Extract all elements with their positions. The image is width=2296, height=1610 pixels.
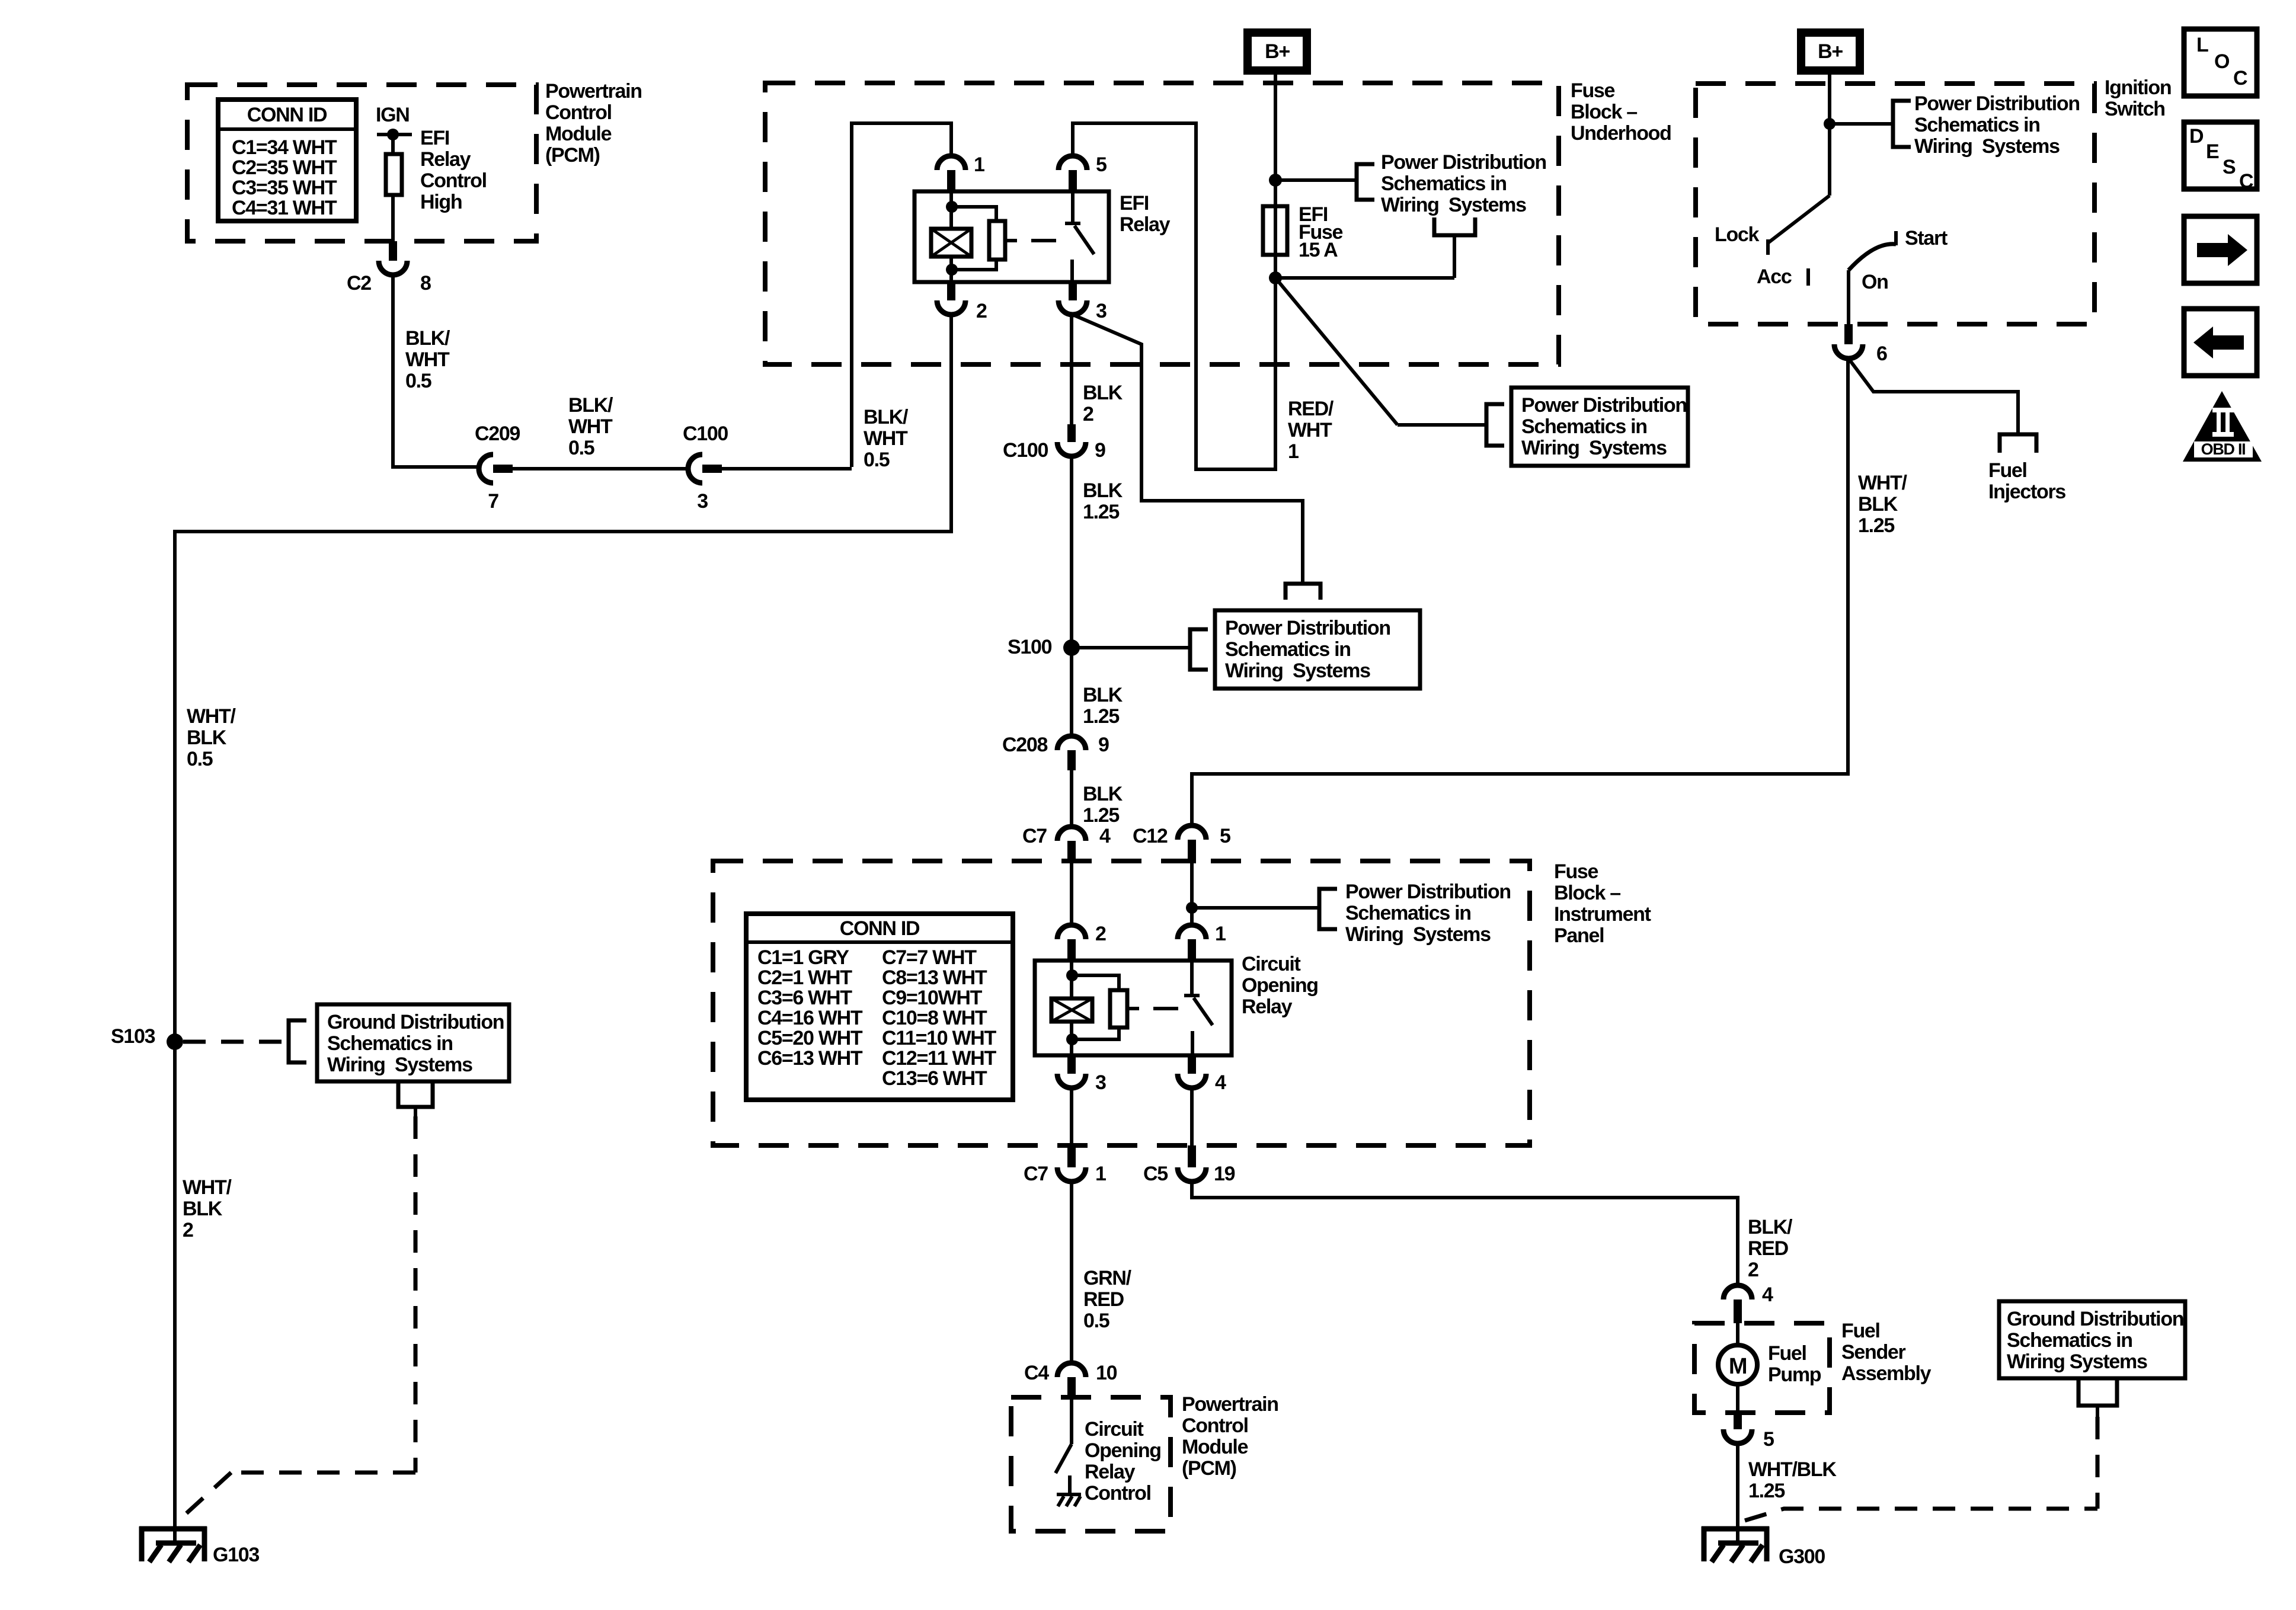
- EFI relay armature branch: [952, 207, 996, 221]
- svg-text:Fuel: Fuel: [1768, 1342, 1806, 1365]
- connector C7 pin 1 (below fuse block IP): [1057, 1167, 1086, 1182]
- wire relay pin 3 down to C7-1: [1070, 1088, 1073, 1145]
- wire EFI relay control: pin 2 down, left to PCM ground run: [175, 315, 951, 1042]
- svg-text:Sender: Sender: [1841, 1341, 1906, 1363]
- node junction on C12 wire (tap to power distribution label): [1186, 902, 1198, 914]
- svg-text:(PCM): (PCM): [1182, 1457, 1236, 1480]
- splice S100: [1063, 639, 1080, 656]
- B+ terminal (ignition switch): [1797, 28, 1864, 75]
- COR switch lower terminal to pin 4: [1191, 1031, 1194, 1055]
- connector fuel sender pin 4: [1723, 1285, 1752, 1299]
- connector C2 pin 8 (PCM output): [379, 261, 407, 275]
- svg-text:WHT/: WHT/: [1858, 472, 1908, 494]
- svg-text:Power Distribution: Power Distribution: [1381, 151, 1546, 174]
- wire B+ feed (ignition switch): [1828, 71, 1831, 196]
- wire C2-8 to C209 (BLK/WHT 0.5 from PCM): [393, 275, 478, 467]
- relay K1 EFI Relay box: [914, 191, 1109, 282]
- bracket to ground distribution box (left): [289, 1020, 306, 1062]
- svg-text:Relay: Relay: [420, 148, 471, 171]
- svg-text:Control: Control: [1085, 1482, 1151, 1505]
- svg-text:9: 9: [1098, 734, 1109, 756]
- bracket to power distribution note (ignition): [1893, 101, 1911, 147]
- wire EFI relay pin 5 loop (up right and down to fuse leg): [1073, 123, 1275, 469]
- svg-text:C13=6 WHT: C13=6 WHT: [882, 1067, 987, 1090]
- svg-text:BLK: BLK: [183, 1198, 223, 1220]
- EFI relay switch lower terminal to pin 3: [1070, 260, 1074, 282]
- node coil top (COR): [1066, 969, 1078, 981]
- svg-text:8: 8: [420, 272, 431, 295]
- svg-text:Wiring Systems: Wiring Systems: [1345, 923, 1491, 946]
- wire fuse output right branch to power distribution bracket: [1274, 255, 1277, 278]
- svg-text:C4=31 WHT: C4=31 WHT: [232, 197, 337, 219]
- node junction below EFI fuse: [1269, 271, 1282, 284]
- svg-text:RED: RED: [1748, 1237, 1789, 1260]
- svg-text:C2: C2: [347, 272, 371, 295]
- svg-text:EFI: EFI: [1120, 192, 1149, 215]
- svg-text:B+: B+: [1265, 40, 1290, 63]
- circuit opening relay control switch inside PCM: [1070, 1397, 1073, 1444]
- boxed label Ground Distribution Schematics in Wiring Systems (left): [317, 1004, 509, 1081]
- svg-text:C12=11 WHT: C12=11 WHT: [882, 1047, 997, 1070]
- svg-text:19: 19: [1214, 1163, 1235, 1185]
- svg-text:Acc: Acc: [1757, 265, 1792, 288]
- svg-text:BLK: BLK: [1083, 382, 1123, 404]
- svg-text:2: 2: [1083, 403, 1093, 425]
- svg-text:Fuel: Fuel: [1988, 459, 2027, 482]
- node coil bottom: [946, 264, 958, 276]
- svg-text:Circuit: Circuit: [1242, 953, 1301, 975]
- svg-text:5: 5: [1763, 1428, 1774, 1451]
- svg-text:1.25: 1.25: [1858, 514, 1894, 537]
- svg-text:C100: C100: [1003, 439, 1048, 462]
- COR coil branch wires: [1070, 961, 1073, 998]
- svg-text:1.25: 1.25: [1083, 501, 1119, 523]
- dashed link down to G103: [414, 1116, 418, 1473]
- wire GRN/RED 0.5 from C7-1 to PCM C4-10: [1070, 1182, 1073, 1363]
- svg-text:Opening: Opening: [1242, 974, 1318, 997]
- svg-text:Switch: Switch: [2105, 98, 2165, 120]
- svg-text:C4: C4: [1024, 1362, 1049, 1384]
- svg-text:1: 1: [1288, 440, 1299, 463]
- svg-text:E: E: [2206, 140, 2219, 163]
- svg-text:3: 3: [697, 490, 708, 513]
- svg-text:Schematics in: Schematics in: [1381, 172, 1507, 195]
- svg-text:High: High: [420, 191, 462, 213]
- EFI relay connector pin 5: [1059, 156, 1087, 170]
- connector ignition pin 6: [1834, 344, 1863, 359]
- svg-text:0.5: 0.5: [568, 437, 594, 459]
- svg-text:Schematics in: Schematics in: [1521, 415, 1647, 438]
- svg-text:Ground Distribution: Ground Distribution: [2007, 1308, 2183, 1330]
- svg-text:BLK: BLK: [1083, 783, 1123, 805]
- wire C5-19 to fuel pump (BLK/RED 2): [1192, 1182, 1738, 1285]
- svg-text:C6=13 WHT: C6=13 WHT: [757, 1047, 863, 1070]
- splice S103: [167, 1033, 183, 1050]
- svg-text:4: 4: [1099, 825, 1111, 847]
- svg-text:C12: C12: [1133, 825, 1168, 847]
- connector C100 pin 3 inline: [688, 454, 702, 483]
- svg-text:C9=10WHT: C9=10WHT: [882, 987, 983, 1009]
- PCM dashed box (top left): [187, 85, 536, 241]
- wire BLK 1.25 S100 to C208: [1070, 648, 1073, 736]
- svg-text:10: 10: [1096, 1362, 1117, 1384]
- bracket to power distribution note (top): [1357, 164, 1374, 200]
- wire RED/WHT 1 diagonal from fuse junction to boxed power distribution note: [1275, 278, 1398, 425]
- svg-text:Schematics in: Schematics in: [1225, 638, 1351, 661]
- svg-text:C10=8 WHT: C10=8 WHT: [882, 1007, 987, 1029]
- svg-text:S103: S103: [111, 1025, 155, 1048]
- wire C7-4 to relay pin 2: [1070, 863, 1073, 925]
- COR switch blade (open): [1194, 998, 1213, 1025]
- svg-text:4: 4: [1762, 1283, 1773, 1306]
- svg-text:Power Distribution: Power Distribution: [1225, 617, 1390, 639]
- bracket under power distribution note (top): [1434, 217, 1475, 235]
- svg-text:GRN/: GRN/: [1083, 1267, 1132, 1289]
- svg-text:2: 2: [1748, 1259, 1758, 1281]
- sidebar back arrow box: [2184, 309, 2257, 376]
- ignition switch dashed box: [1696, 84, 2094, 324]
- svg-text:Schematics in: Schematics in: [1345, 902, 1471, 924]
- svg-text:Lock: Lock: [1715, 223, 1760, 246]
- svg-text:B+: B+: [1818, 40, 1843, 63]
- wire relay pin 4 down to C5-19: [1190, 1088, 1194, 1145]
- svg-text:5: 5: [1220, 825, 1230, 847]
- svg-text:M: M: [1729, 1354, 1747, 1379]
- connector C12 pin 5 (fuse block IP): [1178, 825, 1206, 840]
- svg-text:C1=1 GRY: C1=1 GRY: [757, 946, 849, 969]
- sidebar DESC box: [2184, 122, 2257, 189]
- svg-text:15 A: 15 A: [1299, 239, 1338, 261]
- svg-text:2: 2: [1095, 923, 1106, 945]
- svg-text:Wiring Systems: Wiring Systems: [2007, 1350, 2147, 1373]
- connector C4 pin 10 (PCM input): [1057, 1363, 1086, 1377]
- wire relay pin 3 branch diagonal (to instrument panel feed): [1073, 315, 1303, 584]
- EFI relay connector pin 1: [937, 156, 965, 170]
- svg-text:CONN ID: CONN ID: [840, 917, 920, 940]
- boxed label Ground Distribution Schematics in Wiring Systems (right): [1999, 1301, 2185, 1378]
- svg-text:BLK/: BLK/: [1748, 1216, 1793, 1238]
- boxed label Power Distribution Schematics in Wiring Systems (S100): [1215, 610, 1420, 689]
- sidebar forward arrow box: [2184, 216, 2257, 283]
- svg-text:Control: Control: [1182, 1414, 1248, 1437]
- svg-text:Ground Distribution: Ground Distribution: [327, 1011, 504, 1033]
- svg-text:C208: C208: [1002, 734, 1047, 756]
- wire C12-5 to relay pin 1: [1190, 863, 1194, 925]
- svg-text:Power Distribution: Power Distribution: [1914, 92, 2080, 115]
- svg-text:Start: Start: [1905, 227, 1948, 249]
- EFI relay connector pin 3: [1059, 300, 1087, 315]
- node coil top: [946, 201, 958, 213]
- connector C208 pin 9: [1057, 736, 1086, 750]
- connector C100 pin 9: [1057, 442, 1086, 456]
- EFI relay switch blade (open): [1075, 226, 1094, 254]
- wire to fuel injectors branch: [1849, 359, 2018, 434]
- svg-text:Relay: Relay: [1085, 1461, 1136, 1483]
- resistor EFI Relay Control High driver: [391, 135, 395, 154]
- bracket to boxed power distribution note (S100 left): [1190, 629, 1208, 670]
- svg-text:Block –: Block –: [1554, 882, 1620, 904]
- connector C209 pin 7 inline: [479, 454, 493, 483]
- svg-text:Opening: Opening: [1085, 1439, 1161, 1462]
- wire C100 to riser corner: [722, 467, 852, 470]
- svg-text:EFI: EFI: [420, 127, 449, 149]
- boxed label Power Distribution Schematics in Wiring Systems (fed by RED/WHT): [1511, 388, 1688, 466]
- wire relay pin 3 to C100-9 (BLK 2): [1070, 315, 1073, 424]
- svg-text:WHT: WHT: [864, 427, 908, 450]
- svg-text:Schematics in: Schematics in: [2007, 1329, 2132, 1352]
- svg-text:WHT: WHT: [568, 415, 613, 438]
- svg-text:C7: C7: [1022, 825, 1047, 847]
- svg-text:7: 7: [488, 490, 498, 513]
- svg-text:Wiring Systems: Wiring Systems: [1914, 135, 2060, 158]
- mini ground symbol inside PCM: [1057, 1493, 1081, 1496]
- EFI relay connector pin 2: [937, 300, 965, 315]
- wire BLK 1.25 C208 to C7: [1070, 770, 1073, 827]
- connector C5 pin 19 (below fuse block IP): [1178, 1167, 1206, 1182]
- svg-text:Relay: Relay: [1242, 996, 1293, 1018]
- svg-text:2: 2: [976, 300, 987, 322]
- bracket under ground distribution box (left): [398, 1081, 433, 1107]
- svg-text:Assembly: Assembly: [1841, 1362, 1932, 1385]
- svg-text:0.5: 0.5: [187, 748, 213, 770]
- fuel sender assembly dashed box: [1694, 1323, 1830, 1413]
- svg-text:C: C: [2233, 67, 2247, 89]
- dashed link G300 to ground distribution note: [1745, 1509, 2097, 1521]
- svg-text:C3=6 WHT: C3=6 WHT: [757, 987, 852, 1009]
- circuit opening relay connector pin 4: [1178, 1074, 1206, 1088]
- svg-text:Fuse: Fuse: [1571, 79, 1615, 102]
- svg-text:Power Distribution: Power Distribution: [1345, 881, 1511, 903]
- EFI relay core (contact rectangle): [989, 221, 1005, 260]
- svg-text:Circuit: Circuit: [1085, 1418, 1144, 1441]
- svg-text:1.25: 1.25: [1748, 1480, 1785, 1502]
- svg-text:Injectors: Injectors: [1988, 481, 2065, 503]
- OBD II marker triangle: [2183, 391, 2262, 462]
- wire C209 to C100: [513, 467, 687, 470]
- ground G300: [1702, 1526, 1769, 1532]
- EFI relay actuator dashed link: [1031, 239, 1056, 242]
- svg-text:G300: G300: [1779, 1545, 1825, 1568]
- svg-text:0.5: 0.5: [1083, 1310, 1109, 1332]
- svg-text:0.5: 0.5: [405, 370, 431, 392]
- svg-text:C4=16 WHT: C4=16 WHT: [757, 1007, 863, 1029]
- svg-text:Underhood: Underhood: [1571, 122, 1671, 145]
- fuse block underhood dashed box: [765, 83, 1559, 364]
- CONN ID table (fuse block IP): [746, 914, 1013, 1100]
- svg-text:C7: C7: [1024, 1163, 1048, 1185]
- svg-text:Wiring Systems: Wiring Systems: [1521, 437, 1667, 459]
- svg-text:C5: C5: [1143, 1163, 1168, 1185]
- svg-text:Fuse: Fuse: [1554, 860, 1598, 883]
- svg-text:Wiring Systems: Wiring Systems: [1225, 660, 1370, 682]
- svg-text:C1=34 WHT: C1=34 WHT: [232, 136, 337, 159]
- wire pin1-loop riser BLK/WHT 0.5 down to C100: [850, 364, 853, 467]
- svg-text:BLK: BLK: [1858, 493, 1898, 516]
- svg-text:Module: Module: [545, 123, 612, 145]
- svg-text:5: 5: [1096, 153, 1107, 176]
- svg-text:BLK/: BLK/: [405, 327, 450, 350]
- svg-text:Fuel: Fuel: [1841, 1320, 1880, 1342]
- svg-text:C5=20 WHT: C5=20 WHT: [757, 1027, 863, 1049]
- bracket under ground distribution box (right): [2078, 1378, 2117, 1406]
- svg-text:WHT: WHT: [1288, 419, 1332, 441]
- svg-text:BLK/: BLK/: [864, 406, 909, 428]
- svg-text:Powertrain: Powertrain: [1182, 1393, 1278, 1416]
- B+ terminal (battery feed, fuse block underhood): [1243, 28, 1311, 75]
- svg-text:WHT/BLK: WHT/BLK: [1748, 1458, 1837, 1481]
- circuit opening relay connector pin 1: [1178, 925, 1206, 939]
- svg-text:Module: Module: [1182, 1436, 1248, 1458]
- svg-text:(PCM): (PCM): [545, 144, 600, 167]
- svg-text:1: 1: [1095, 1163, 1106, 1185]
- svg-text:Panel: Panel: [1554, 924, 1604, 947]
- svg-text:Wiring Systems: Wiring Systems: [1381, 194, 1526, 216]
- connector fuel sender pin 5: [1723, 1429, 1752, 1443]
- svg-text:S: S: [2223, 156, 2236, 178]
- svg-text:C100: C100: [683, 422, 728, 445]
- svg-text:BLK: BLK: [1083, 479, 1123, 502]
- svg-text:Pump: Pump: [1768, 1363, 1821, 1386]
- svg-text:4: 4: [1215, 1071, 1226, 1094]
- wire EFI relay pin 1 loop (up and left to BLK/WHT riser): [852, 123, 951, 364]
- relay K2 Circuit Opening Relay box: [1035, 961, 1232, 1055]
- motor M1 fuel pump: [1736, 1323, 1739, 1345]
- wire ignition switch output: [1847, 270, 1850, 324]
- bracket to power distribution note (IP): [1319, 889, 1337, 929]
- EFI relay coil (box with X): [931, 229, 971, 257]
- svg-text:BLK: BLK: [1083, 684, 1123, 706]
- dashed link S103 to ground distribution note: [183, 1040, 287, 1044]
- bracket to boxed power distribution note (right of EFI fuse): [1486, 404, 1504, 446]
- node junction below B+ (ignition): [1824, 118, 1835, 130]
- svg-text:C2=35 WHT: C2=35 WHT: [232, 156, 337, 179]
- svg-text:Schematics in: Schematics in: [327, 1032, 453, 1055]
- svg-text:C11=10 WHT: C11=10 WHT: [882, 1027, 997, 1049]
- fuse block instrument panel dashed box: [713, 861, 1530, 1145]
- COR coil (box with X): [1051, 998, 1092, 1022]
- svg-text:Schematics in: Schematics in: [1914, 114, 2040, 136]
- svg-text:Ignition: Ignition: [2105, 76, 2171, 99]
- svg-text:WHT/: WHT/: [187, 705, 236, 728]
- svg-text:2: 2: [183, 1219, 193, 1241]
- bracket over boxed power distribution note (S100): [1285, 584, 1320, 600]
- CONN ID table (PCM): [218, 100, 356, 221]
- wire WHT/BLK 2 down to ground G103: [173, 1042, 177, 1543]
- svg-text:S100: S100: [1008, 636, 1052, 658]
- svg-text:9: 9: [1095, 439, 1105, 462]
- svg-text:0.5: 0.5: [864, 449, 890, 471]
- svg-text:C3=35 WHT: C3=35 WHT: [232, 177, 337, 199]
- svg-text:OBD II: OBD II: [2201, 440, 2246, 458]
- svg-text:RED/: RED/: [1288, 398, 1334, 420]
- svg-text:CONN ID: CONN ID: [247, 104, 327, 126]
- svg-text:1: 1: [1215, 923, 1226, 945]
- svg-text:C8=13 WHT: C8=13 WHT: [882, 966, 987, 989]
- EFI relay switch fixed contact from pin 5: [1071, 191, 1075, 223]
- node junction below B+ (tap to power distribution label): [1269, 174, 1282, 187]
- svg-text:Control: Control: [545, 101, 612, 124]
- COR actuator dashed link: [1153, 1007, 1178, 1010]
- svg-text:D: D: [2189, 125, 2204, 148]
- svg-text:3: 3: [1096, 300, 1107, 322]
- svg-text:Powertrain: Powertrain: [545, 80, 642, 103]
- svg-text:3: 3: [1095, 1071, 1106, 1094]
- svg-text:Power Distribution: Power Distribution: [1521, 394, 1687, 417]
- wire B+ feed to EFI fuse (vertical from B+ terminal through fuse to junction): [1274, 71, 1277, 209]
- wire WHT/BLK 1.25 from ignition to C12-5: [1192, 359, 1848, 825]
- COR switch fixed contact from pin 1: [1190, 961, 1194, 996]
- svg-text:Relay: Relay: [1120, 213, 1171, 236]
- COR core (contact rectangle): [1110, 990, 1127, 1028]
- svg-text:O: O: [2214, 50, 2230, 73]
- svg-text:6: 6: [1876, 343, 1887, 365]
- svg-text:On: On: [1862, 271, 1888, 293]
- wire WHT/BLK 1.25 to ground G300: [1736, 1443, 1739, 1543]
- svg-text:RED: RED: [1083, 1288, 1124, 1311]
- svg-text:BLK: BLK: [187, 726, 227, 749]
- svg-text:1.25: 1.25: [1083, 705, 1119, 728]
- svg-text:IGN: IGN: [376, 104, 410, 126]
- svg-text:BLK/: BLK/: [568, 394, 613, 417]
- svg-text:C209: C209: [475, 422, 520, 445]
- svg-text:C2=1 WHT: C2=1 WHT: [757, 966, 852, 989]
- svg-text:1: 1: [974, 153, 984, 176]
- PCM dashed box (bottom): [1011, 1397, 1171, 1531]
- wire BLK 1.25 to S100: [1070, 456, 1073, 648]
- node coil bottom (COR): [1066, 1033, 1078, 1045]
- svg-text:WHT: WHT: [405, 348, 450, 371]
- circuit opening relay connector pin 2: [1057, 925, 1086, 939]
- svg-text:Block –: Block –: [1571, 101, 1637, 123]
- connector C7 pin 4 (fuse block IP): [1057, 827, 1086, 841]
- svg-text:C: C: [2239, 170, 2253, 193]
- fuse F1 EFI Fuse 15A: [1263, 206, 1287, 255]
- svg-text:Wiring Systems: Wiring Systems: [327, 1054, 472, 1076]
- ground G103: [139, 1526, 207, 1532]
- ignition switch rotor blade to Lock: [1768, 196, 1830, 243]
- svg-text:G103: G103: [213, 1544, 259, 1566]
- sidebar LOC box: [2184, 29, 2257, 96]
- fuel injectors branch symbol: [2000, 434, 2036, 453]
- EFI relay coil branch wires: [949, 191, 953, 229]
- svg-text:1.25: 1.25: [1083, 804, 1119, 827]
- svg-text:Instrument: Instrument: [1554, 903, 1651, 926]
- svg-text:WHT/: WHT/: [183, 1176, 232, 1199]
- svg-text:C7=7 WHT: C7=7 WHT: [882, 946, 977, 969]
- COR armature branch: [1072, 975, 1119, 990]
- svg-text:L: L: [2196, 34, 2208, 56]
- circuit opening relay connector pin 3: [1057, 1074, 1086, 1088]
- svg-text:Control: Control: [420, 169, 487, 192]
